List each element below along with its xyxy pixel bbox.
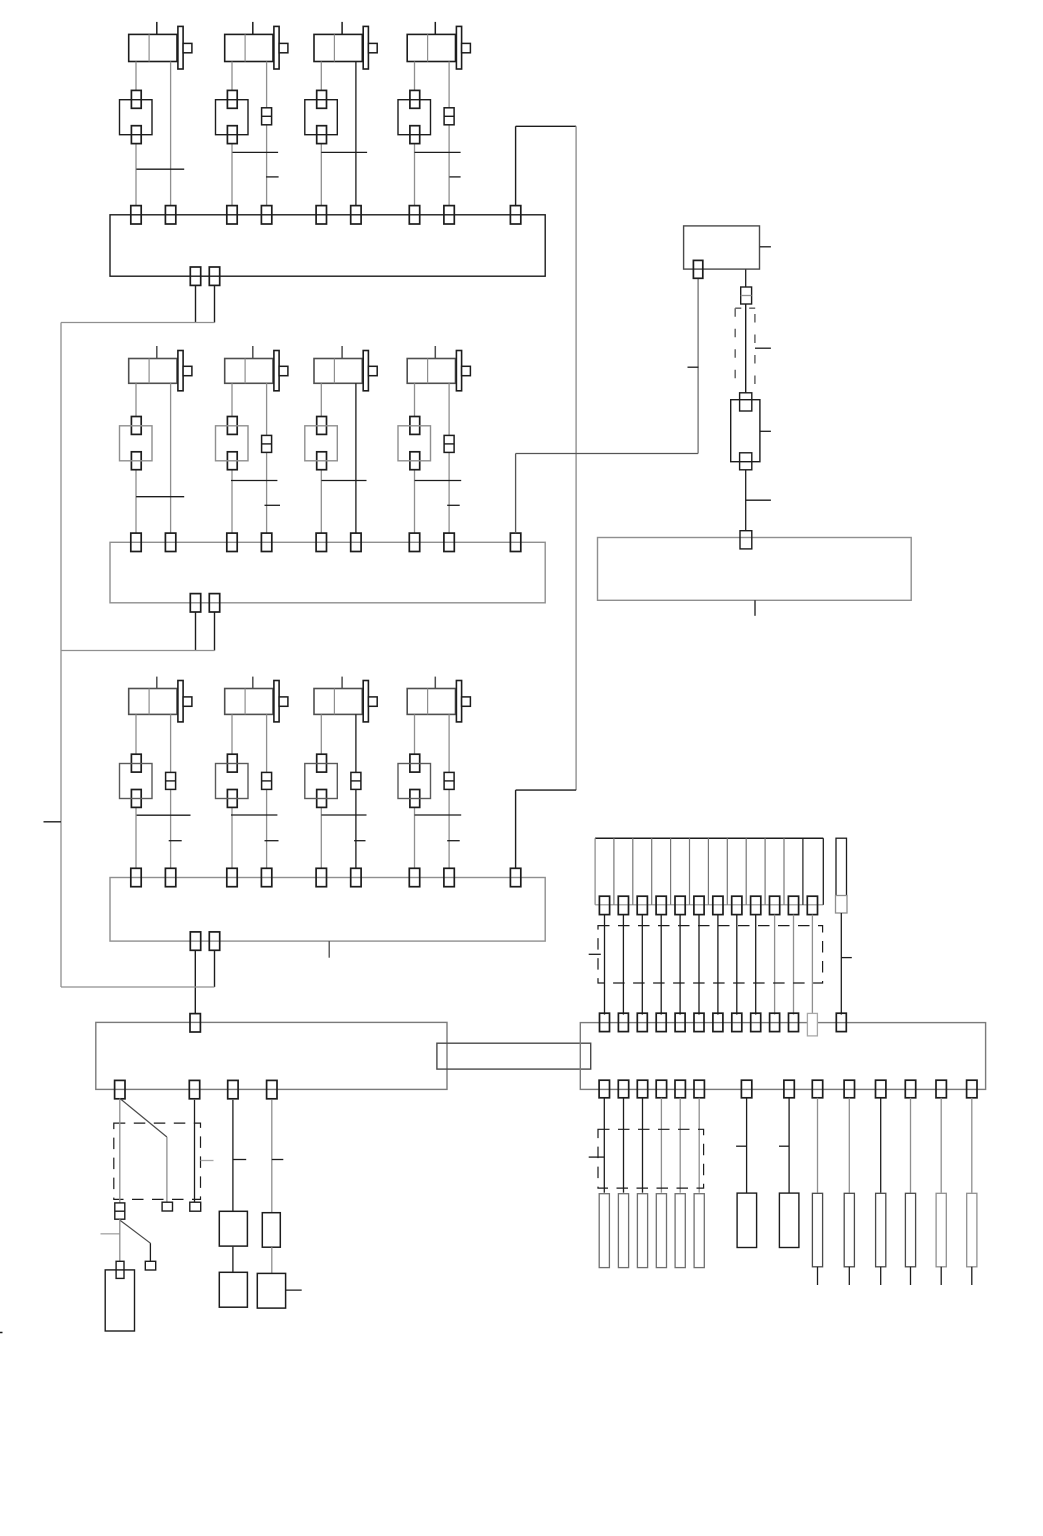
- resistor box 4b: [257, 1273, 285, 1308]
- ecu box stub: [754, 600, 756, 616]
- fuse strip pin 11: [788, 896, 798, 914]
- bus 1 pin a4: [409, 206, 419, 224]
- fuse wire 11: [793, 915, 795, 1015]
- ecu right bottom pin 12: [905, 1080, 915, 1098]
- fuse wire 3: [641, 915, 643, 1015]
- wire injector 1-1 left: [135, 62, 137, 91]
- pad 1: [162, 1202, 172, 1211]
- connector 2-3: [317, 417, 327, 435]
- tank dashed sleeve: [735, 307, 741, 309]
- splice tick block2-2: [231, 480, 277, 482]
- ecu right bottom pin 14: [967, 1080, 977, 1098]
- bus 2 pin a2: [227, 533, 237, 551]
- ecu right bottom pin 1: [599, 1080, 609, 1098]
- bottom wire 14: [971, 1098, 973, 1193]
- wire injector 1-4 left: [414, 62, 416, 91]
- wire injector 1-4 right: [448, 62, 450, 206]
- connector 2-4: [410, 417, 420, 435]
- bus 3 bottom pin 2: [209, 932, 219, 950]
- bus 2 bottom pin 2: [209, 594, 219, 612]
- bottom wire 3: [642, 1098, 644, 1193]
- connector 1-2: [227, 90, 237, 108]
- ground trunk: [60, 323, 62, 988]
- bus 3 pin b2: [261, 868, 271, 886]
- single fuse tick: [841, 957, 852, 959]
- ecu right bottom pin 9: [812, 1080, 822, 1098]
- ecu right top pin 9: [751, 1013, 761, 1031]
- wire injector 2-4 right: [448, 383, 450, 533]
- ecu box right: [598, 538, 912, 601]
- short tick block3-1: [169, 840, 182, 842]
- splice tick block2-4: [415, 480, 462, 482]
- resistor box 4a: [262, 1213, 280, 1248]
- bus 3 right pin: [510, 868, 520, 886]
- junction box 1: [110, 215, 545, 276]
- connector 2-2: [227, 417, 237, 435]
- fuse strip pin 8: [732, 896, 742, 914]
- relay box: [684, 226, 760, 269]
- connector 3-4: [410, 754, 420, 772]
- terminal stub 14: [971, 1267, 973, 1285]
- wire injector 3-2 left: [231, 714, 233, 754]
- fuse block divider 6: [707, 838, 709, 905]
- resistor box 3a: [219, 1211, 247, 1246]
- terminal strip 14: [967, 1193, 977, 1267]
- terminal strip 2: [618, 1194, 628, 1268]
- tick wire8: [779, 1145, 789, 1147]
- fuse wire 1: [604, 915, 606, 1015]
- bus 3 bottom pin 1: [190, 932, 200, 950]
- fuel pump tick: [760, 430, 771, 432]
- fuse strip pin 5: [675, 896, 685, 914]
- wire injector 1-1 right: [170, 62, 172, 206]
- fuse block divider 8: [745, 838, 747, 905]
- bus 1 pin a2: [227, 206, 237, 224]
- stub under bus3: [328, 941, 330, 958]
- wire injector 2-2 right: [266, 383, 268, 533]
- wire injector 1-3 left: [320, 62, 322, 91]
- short tick block2-1: [265, 504, 281, 506]
- fuse block divider 9: [764, 838, 766, 905]
- short tick block1-2: [449, 176, 460, 178]
- sensor box 8: [779, 1193, 799, 1247]
- ecu right bottom pin 13: [936, 1080, 946, 1098]
- ecu right bottom pin 7: [741, 1080, 751, 1098]
- wire gl3: [232, 1100, 234, 1211]
- splice tick block1-1: [136, 168, 184, 170]
- bus 1 pin b3: [351, 206, 361, 224]
- injector coil 2-1: [156, 346, 158, 359]
- connector 1-3: [317, 90, 327, 108]
- ecu right bottom pin 4: [656, 1080, 666, 1098]
- wire injector 3-1 left: [135, 714, 137, 754]
- inline connector 3-1: [166, 772, 176, 789]
- injector coil 2-3: [341, 346, 343, 359]
- wire gl4: [271, 1100, 273, 1213]
- inline connector 1-2: [262, 108, 272, 125]
- splice tick block1-3: [321, 151, 367, 153]
- ecu right top pin 7: [713, 1013, 723, 1031]
- wire injector 2-1 right: [170, 383, 172, 533]
- terminal strip 12: [905, 1193, 915, 1267]
- trunk tick: [44, 821, 62, 823]
- bottom wire 9: [817, 1098, 819, 1193]
- ecu right bottom pin 10: [844, 1080, 854, 1098]
- injector coil 2-2: [252, 346, 254, 359]
- bottom wire 8: [788, 1098, 790, 1193]
- bottom wire 13: [940, 1098, 942, 1193]
- short tick block1-1: [266, 176, 279, 178]
- tick gl3: [233, 1159, 246, 1161]
- wire bus3 bottom pins junction: [194, 950, 196, 1014]
- ecu right bottom pin 3: [637, 1080, 647, 1098]
- injector coil 3-2: [252, 677, 254, 689]
- bus 1 pin a3: [316, 206, 326, 224]
- injector coil 1-2: [252, 22, 254, 35]
- ecu right bottom pin 8: [784, 1080, 794, 1098]
- terminal stub 9: [817, 1267, 819, 1285]
- bus 2 pin a1: [131, 533, 141, 551]
- terminal strip 6: [694, 1194, 704, 1268]
- fuse block divider 2: [632, 838, 634, 905]
- pad 2: [145, 1261, 155, 1270]
- fuse wire 4: [660, 915, 662, 1015]
- splice tick block3-2: [231, 814, 277, 816]
- fuel pump body: [731, 400, 760, 462]
- ecu right top pin 2: [618, 1013, 628, 1031]
- wire injector 3-2 right: [266, 714, 268, 868]
- bus 2 pin b4: [444, 533, 454, 551]
- relay box pin: [693, 260, 702, 278]
- stacked connector: [115, 1203, 125, 1219]
- ecu right top pin 13: [836, 1013, 846, 1031]
- bottom wire 1: [603, 1098, 605, 1193]
- wire gl3b: [232, 1247, 234, 1272]
- terminal strip 13: [936, 1193, 946, 1267]
- bus 2 pin b2: [261, 533, 271, 551]
- fuse wire 5: [679, 915, 681, 1015]
- ecu left bottom pin 4: [267, 1080, 277, 1098]
- bus 3 pin b3: [351, 868, 361, 886]
- ground pad: [116, 1261, 124, 1278]
- terminal stub 11: [880, 1267, 882, 1285]
- bus 2 right pin: [510, 533, 520, 551]
- wire injector 3-1 right: [170, 714, 172, 868]
- wire gl1: [119, 1098, 121, 1203]
- terminal strip 11: [876, 1193, 886, 1267]
- injector coil 1-3: [341, 22, 343, 35]
- wire gl1b: [119, 1219, 121, 1261]
- ground plate: [105, 1270, 134, 1331]
- wire injector 2-2 left: [231, 383, 233, 416]
- injector coil 3-4: [434, 677, 436, 689]
- fuse strip pin 6: [694, 896, 704, 914]
- ecu right top pin 12: [807, 1013, 817, 1036]
- short tick block3-3: [354, 840, 365, 842]
- wire injector 2-3 right: [355, 383, 357, 533]
- pad 3: [190, 1202, 201, 1211]
- ecu right top pin 8: [732, 1013, 742, 1031]
- wire injector 3-3 left: [320, 714, 322, 754]
- short tick block3-2: [265, 840, 279, 842]
- page edge tick: [0, 1332, 3, 1334]
- inline connector 3-2: [262, 772, 272, 789]
- splice tick block2-1: [136, 496, 184, 498]
- terminal stub 13: [940, 1267, 942, 1285]
- fuse wire 6: [698, 915, 700, 1015]
- terminal strip 10: [844, 1193, 854, 1267]
- wire injector 3-3 right: [355, 714, 357, 868]
- bus 1 bottom pin 1: [190, 267, 200, 285]
- bottom wire 6: [698, 1098, 700, 1193]
- bus 2 pin a4: [409, 533, 419, 551]
- fuse block divider 11: [802, 838, 804, 905]
- ecu right bottom pin 11: [876, 1080, 886, 1098]
- bus 3 pin a4: [409, 868, 419, 886]
- terminal strip 9: [812, 1193, 822, 1267]
- inline connector 1-4: [444, 108, 454, 125]
- connector 3-2: [227, 754, 237, 772]
- bus 2 pin b3: [351, 533, 361, 551]
- bus 1 pin b1: [165, 206, 175, 224]
- fuse block outline: [595, 837, 823, 839]
- connector 1-1: [131, 90, 141, 108]
- wire injector 2-4 left: [414, 383, 416, 416]
- ecu left bottom pin 1: [115, 1080, 125, 1098]
- ecu right top pin 4: [656, 1013, 666, 1031]
- relay box tick: [760, 246, 771, 248]
- injector coil 3-3: [341, 677, 343, 689]
- ecu right top pin 1: [600, 1013, 610, 1031]
- bus 3 pin a2: [227, 868, 237, 886]
- fuse strip pin 2: [618, 896, 628, 914]
- single fuse strip: [836, 838, 847, 896]
- bottom wire 11: [880, 1098, 882, 1193]
- splice tick block3-3: [321, 814, 366, 816]
- tick wire7: [736, 1145, 747, 1147]
- bottom wire 12: [910, 1098, 912, 1193]
- bridge connector: [437, 1043, 591, 1069]
- fuse strip pin 12: [807, 896, 817, 914]
- bus 2 pin a3: [316, 533, 326, 551]
- wire injector 3-4 right: [448, 714, 450, 868]
- fuse wire 7: [717, 915, 719, 1015]
- connector 2-1: [131, 417, 141, 435]
- fuse block divider 7: [726, 838, 728, 905]
- fuse strip pin 3: [637, 896, 647, 914]
- feed wire bus2 to relay: [515, 454, 517, 534]
- wire gl4b: [271, 1247, 273, 1273]
- fuse block divider 4: [670, 838, 672, 905]
- connector 3-1: [131, 754, 141, 772]
- injector coil 1-1: [156, 22, 158, 35]
- fuse wire 10: [774, 915, 776, 1015]
- terminal stub 12: [910, 1267, 912, 1285]
- bus 3 pin a1: [131, 868, 141, 886]
- connector 1-4: [410, 90, 420, 108]
- inline connector 3-3: [351, 772, 361, 789]
- terminal strip 1: [599, 1194, 609, 1268]
- ecu right top pin 6: [694, 1013, 704, 1031]
- bus 2 pin b1: [165, 533, 175, 551]
- fuse block divider 3: [651, 838, 653, 905]
- tick box4b: [285, 1289, 302, 1291]
- splice tick block1-2: [233, 151, 279, 153]
- pump wire lower: [745, 470, 747, 531]
- junction box 3: [110, 878, 545, 942]
- ecu left bottom pin 2: [189, 1080, 199, 1098]
- tank tick: [755, 347, 771, 349]
- ecu left top pin: [190, 1014, 200, 1032]
- dashed shield bottom: [598, 1129, 704, 1188]
- fuse block divider 5: [689, 838, 691, 905]
- wire injector 1-2 right: [266, 62, 268, 206]
- terminal strip 4: [656, 1194, 666, 1268]
- fuse wire 8: [736, 915, 738, 1015]
- ecu right top pin 5: [675, 1013, 685, 1031]
- ecu right top pin 10: [770, 1013, 780, 1031]
- dashed shield bottom tick: [589, 1156, 604, 1158]
- inline connector 2-4: [444, 435, 454, 452]
- junction box 2: [110, 542, 545, 603]
- injector coil 1-4: [434, 22, 436, 35]
- fuse wire 12: [811, 915, 813, 1015]
- terminal strip 3: [637, 1194, 647, 1268]
- splice tick block1-4: [415, 151, 461, 153]
- short tick block2-2: [447, 504, 460, 506]
- feed wire bus1 to bus3: [515, 126, 517, 206]
- bottom wire 5: [679, 1098, 681, 1193]
- wire injector 1-2 left: [231, 62, 233, 91]
- wire injector 2-3 left: [320, 383, 322, 416]
- wire bus1 bottom pins to trunk: [195, 285, 197, 322]
- sensor box 7: [737, 1193, 757, 1247]
- bus 1 pin a1: [131, 206, 141, 224]
- terminal stub 10: [848, 1267, 850, 1285]
- fuse strip pin 9: [751, 896, 761, 914]
- ecu right bottom pin 5: [675, 1080, 685, 1098]
- single fuse wire: [840, 913, 842, 1015]
- connector 3-3: [317, 754, 327, 772]
- splice tick block3-4: [415, 814, 462, 816]
- pump wire upper: [745, 270, 747, 288]
- injector coil 2-4: [434, 346, 436, 359]
- wire injector 1-3 right: [355, 62, 357, 206]
- ecu left bottom pin 3: [228, 1080, 238, 1098]
- wire injector 3-4 left: [414, 714, 416, 754]
- fuse strip pin 1: [599, 896, 609, 914]
- bus 1 pin b2: [261, 206, 271, 224]
- dashed shield top: [598, 926, 823, 983]
- fuse wire 9: [755, 915, 757, 1015]
- ecu right top pin 11: [789, 1013, 799, 1031]
- fuse wire 2: [622, 915, 624, 1015]
- fuel pump bottom pin: [740, 453, 752, 470]
- bottom wire 10: [848, 1098, 850, 1193]
- fuse strip pin 7: [713, 896, 723, 914]
- pump inline connector: [741, 287, 752, 304]
- inline connector 2-2: [262, 435, 272, 452]
- bus 3 pin a3: [316, 868, 326, 886]
- ecu left box: [96, 1022, 447, 1089]
- bus 1 bottom pin 2: [209, 267, 219, 285]
- fuel pump top pin: [740, 393, 752, 411]
- dashed shield left: [114, 1123, 201, 1199]
- fuse block divider 10: [783, 838, 785, 905]
- bus 3 pin b1: [165, 868, 175, 886]
- bottom wire 4: [660, 1098, 662, 1193]
- resistor box 3b: [219, 1272, 247, 1307]
- tick on relay wire: [688, 366, 699, 368]
- diag wire 1: [120, 1098, 167, 1137]
- gray tick right: [201, 1160, 214, 1162]
- wire bus2 bottom pins to trunk: [195, 612, 197, 651]
- fuse strip pin 4: [656, 896, 666, 914]
- wire gl2: [194, 1100, 196, 1202]
- gray tick left: [101, 1233, 120, 1235]
- single fuse pin: [836, 896, 848, 914]
- bottom wire 7: [746, 1098, 748, 1193]
- pump wire tick: [746, 499, 771, 501]
- splice tick block2-3: [321, 480, 366, 482]
- tick gl4: [272, 1159, 284, 1161]
- ecu right top pin 3: [637, 1013, 647, 1031]
- dashed shield top tick: [589, 953, 601, 955]
- wire injector 2-1 left: [135, 383, 137, 416]
- bus 1 right pin: [510, 206, 520, 224]
- bus 1 pin b4: [444, 206, 454, 224]
- ecu right bottom pin 6: [694, 1080, 704, 1098]
- fuse block divider 1: [613, 838, 615, 905]
- terminal strip 5: [675, 1194, 685, 1268]
- ecu box bottom right: [580, 1023, 985, 1090]
- splice tick block3-1: [137, 814, 191, 816]
- short tick block3-4: [447, 840, 460, 842]
- bus 2 bottom pin 1: [190, 594, 200, 612]
- injector coil 3-1: [156, 677, 158, 689]
- ecu right bottom pin 2: [618, 1080, 628, 1098]
- fuse strip pin 10: [770, 896, 780, 914]
- bottom wire 2: [623, 1098, 625, 1193]
- ecu box pin: [740, 531, 752, 549]
- bus 3 pin b4: [444, 868, 454, 886]
- inline connector 3-4: [444, 772, 454, 789]
- diag wire 2: [120, 1220, 151, 1243]
- pump wire mid: [745, 304, 747, 393]
